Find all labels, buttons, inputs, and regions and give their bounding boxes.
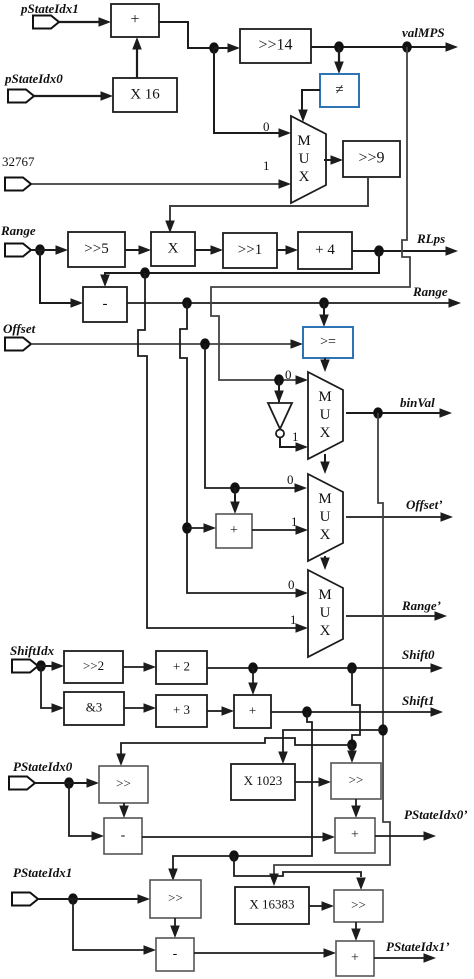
svg-text:Shift0: Shift0 — [402, 647, 435, 662]
mux U9 MUX4 Range — [308, 570, 343, 657]
svg-text:-: - — [173, 947, 178, 962]
junction PStateIdx0 node — [64, 777, 74, 788]
svg-text:U: U — [299, 151, 310, 167]
shifter D >> — [334, 890, 383, 922]
junction PStateIdx1 node — [68, 893, 78, 904]
junction Range out B — [319, 297, 329, 308]
wire sum to shifter14 — [214, 43, 240, 53]
wire MUX3 to MUX4 select — [320, 556, 330, 570]
svg-text:Range’: Range’ — [401, 598, 441, 613]
wire adder output — [159, 22, 214, 48]
wire adder4 to RLps output — [352, 246, 458, 256]
svg-text:>>1: >>1 — [238, 242, 262, 258]
input port pStateIdx1 — [33, 16, 59, 29]
wire binVal to X1023 — [283, 730, 383, 752]
wire Offset branch down — [205, 344, 295, 488]
junction on valMPS wire B — [402, 41, 412, 52]
adder U7 + — [216, 514, 252, 548]
wire PStateIdx0 to subtractor — [69, 783, 104, 841]
junction Shift0 B — [347, 662, 357, 673]
multiplier X 16 — [113, 78, 177, 112]
junction Range out A — [182, 297, 192, 308]
svg-text:>>: >> — [351, 897, 366, 912]
svg-text:RLps: RLps — [416, 231, 445, 246]
arrow into X1023 top — [278, 752, 288, 765]
svg-text:>>14: >>14 — [258, 37, 292, 54]
wire GE to MUX2 select — [320, 358, 330, 372]
shifter >>14 — [240, 29, 311, 63]
svg-text:U: U — [320, 407, 331, 423]
svg-text:>=: >= — [320, 335, 336, 350]
wire adder2 to MUX3 input 1 — [252, 525, 308, 535]
comparator U2 not-equal — [320, 74, 359, 107]
wire shifterC to subtractorC — [170, 918, 180, 938]
svg-text:>>9: >>9 — [358, 150, 384, 167]
wire X16 to adder — [132, 37, 142, 78]
wire Shift1 branch down — [173, 712, 312, 869]
wire X16383 to shifterD — [309, 901, 334, 911]
junction on RLps feedback — [140, 267, 150, 278]
wire NE to MUX1 select — [298, 90, 320, 122]
svg-text:+ 3: + 3 — [173, 702, 190, 717]
svg-text:0: 0 — [288, 577, 295, 592]
svg-text:32767: 32767 — [2, 154, 35, 169]
svg-text:0: 0 — [287, 472, 294, 487]
svg-text:0: 0 — [263, 119, 270, 134]
adder U10 + — [234, 695, 271, 728]
wire shifterB to adderA — [351, 799, 361, 818]
wire MUX3 to Offset out — [346, 512, 453, 522]
input port ShiftIdx — [12, 660, 38, 673]
mask &3 — [64, 692, 124, 725]
wire 32767 to MUX1 input 1 — [31, 179, 291, 189]
svg-text:1: 1 — [291, 514, 298, 529]
wire junction to comparator NE — [334, 47, 344, 74]
svg-text:PStateIdx1: PStateIdx1 — [13, 865, 72, 880]
svg-text:≠: ≠ — [335, 82, 343, 98]
svg-text:Offset’: Offset’ — [406, 497, 443, 512]
svg-text:&3: &3 — [86, 699, 103, 714]
comparator U4 greater-equal — [303, 327, 353, 358]
svg-text:PStateIdx0’: PStateIdx0’ — [404, 807, 468, 822]
wire Offset to comparator — [31, 343, 291, 345]
svg-text:X 1023: X 1023 — [244, 773, 283, 788]
svg-text:X: X — [320, 527, 331, 543]
junction Range branch at adder2 — [182, 522, 192, 533]
input port PStateIdx0 — [9, 777, 35, 790]
svg-text:>>: >> — [168, 890, 183, 905]
wire and3 to adder+3 — [124, 703, 156, 713]
wire PStateIdx0 to shifter — [35, 778, 99, 788]
mux U3 MUX1 — [291, 116, 326, 203]
wire subtractorA to adderA — [142, 832, 335, 842]
arrow into GE left — [291, 339, 304, 349]
junction Offset branch — [230, 482, 240, 493]
svg-text:X: X — [320, 425, 331, 441]
multiplier X 16383 — [235, 887, 309, 924]
mux U8 MUX3 Offset — [308, 474, 343, 561]
arrow into MUX4 input 0 — [296, 588, 309, 598]
svg-text:>>2: >>2 — [83, 658, 104, 673]
shifter A >> — [99, 766, 148, 803]
wire inverter to MUX2 input 1 — [280, 438, 308, 452]
svg-text:PStateIdx0: PStateIdx0 — [13, 759, 73, 774]
svg-text:pStateIdx1: pStateIdx1 — [20, 1, 79, 16]
wire shifter9 to multiplier X — [165, 177, 368, 233]
arrow into MUX3 input 0 — [295, 483, 308, 493]
svg-text:U: U — [320, 605, 331, 621]
svg-text:M: M — [318, 389, 331, 405]
svg-text:1: 1 — [263, 158, 270, 173]
wire Shift0 to adder7 top — [248, 668, 258, 695]
svg-text:M: M — [318, 491, 331, 507]
svg-text:X: X — [168, 240, 179, 256]
junction valMPS at inverter — [274, 374, 284, 385]
arrow Range output — [449, 298, 462, 308]
wire subtractorC to adderC — [194, 948, 336, 958]
junction binVal node — [373, 407, 383, 418]
svg-text:Offset: Offset — [3, 321, 36, 336]
wire Shift0 to left shifter — [121, 738, 352, 754]
adder C + — [336, 941, 374, 976]
svg-text:1: 1 — [290, 612, 297, 627]
shifter B >> — [331, 763, 381, 799]
svg-text:valMPS: valMPS — [402, 25, 445, 40]
subtractor R1 - — [83, 287, 127, 322]
wire shifter2 to adder+2 — [123, 662, 156, 672]
junction Offset node — [200, 338, 210, 349]
wire adder2 to Shift0 output — [207, 663, 443, 673]
svg-text:X: X — [299, 169, 310, 185]
wire shifter1 to adder4 — [277, 245, 298, 255]
wire Range to shifter5 — [31, 245, 68, 255]
svg-text:ShiftIdx: ShiftIdx — [10, 643, 55, 658]
wire RLps branch down — [138, 273, 296, 628]
wire shifter14 to valMPS output — [311, 42, 458, 52]
shifter >>2 — [64, 651, 123, 683]
svg-text:1: 1 — [292, 429, 299, 444]
svg-text:+ 4: + 4 — [315, 242, 335, 258]
wire PStateIdx1 to subtractor — [73, 899, 156, 955]
wire RLps down to subtractor — [100, 251, 379, 287]
svg-text:0: 0 — [285, 367, 292, 382]
svg-text:X 16383: X 16383 — [249, 896, 294, 911]
junction ShiftIdx node — [36, 660, 46, 671]
adder U1 + — [111, 4, 159, 37]
shifter >>9 — [343, 141, 400, 177]
svg-text:+: + — [249, 702, 256, 717]
svg-text:U: U — [320, 509, 331, 525]
input port 32767 — [5, 178, 31, 191]
svg-text:>>: >> — [116, 775, 131, 790]
adder A + — [335, 818, 375, 853]
svg-text:Range: Range — [0, 223, 36, 238]
svg-text:X: X — [320, 623, 331, 639]
wire adder3 to adder7 — [207, 706, 234, 716]
arrow into PState1 left shifter top — [168, 869, 178, 882]
wire Range branch to adder2 — [187, 523, 216, 533]
shifter >>1 — [223, 233, 277, 268]
wire shifterA to subtractorA — [119, 803, 129, 818]
wire sum to MUX1 input 0 — [214, 48, 291, 138]
wire binVal vertical — [274, 413, 390, 874]
wire Shift0 to right shifter top — [347, 745, 357, 763]
wire PStateIdx1 to shifter — [38, 894, 150, 904]
junction Shift1 at row2 — [229, 850, 239, 861]
junction sum node — [209, 42, 219, 53]
svg-text:-: - — [121, 828, 126, 843]
inverter U5 — [268, 403, 292, 438]
subtractor A - — [104, 818, 142, 854]
svg-text:+: + — [351, 951, 359, 966]
wire MUX2 to MUX3 select — [320, 454, 330, 474]
input port pStateIdx0 — [8, 90, 34, 103]
wire X to shifter1 — [195, 245, 223, 255]
wire X1023 to shifterB — [295, 777, 331, 787]
svg-text:Range: Range — [412, 284, 448, 299]
junction RLps node — [374, 245, 384, 256]
wire Range output — [127, 302, 449, 304]
adder + 2 — [156, 651, 207, 684]
svg-text:+: + — [130, 11, 139, 28]
wire Range to comparator GE top — [319, 303, 329, 327]
wire MUX4 to Range out — [346, 611, 447, 621]
svg-text:+: + — [230, 523, 238, 538]
svg-text:>>5: >>5 — [84, 241, 108, 257]
arrow into X16383 top — [269, 874, 279, 887]
svg-text:Shift1: Shift1 — [402, 693, 435, 708]
wire pStateIdx1 to adder — [59, 17, 111, 27]
arrow into MUX2 input 0 — [296, 375, 309, 385]
wire valMPS vertical to binVal mux — [211, 47, 410, 380]
wire Range to subtractor — [40, 250, 83, 308]
junction Shift0 A — [248, 662, 258, 673]
wire Shift0 branch down — [352, 668, 360, 745]
junction on valMPS wire A — [334, 41, 344, 52]
junction Shift0 at shifters — [347, 739, 357, 750]
wire to inverter — [274, 380, 284, 403]
shifter >>5 — [68, 232, 125, 267]
multiplier X 1023 — [231, 764, 295, 800]
svg-text:+: + — [351, 828, 359, 843]
junction Shift1 node — [302, 706, 312, 717]
wire shifter5 to X — [125, 245, 151, 255]
svg-text:-: - — [103, 296, 108, 312]
wire adderA to PStateIdx0 output — [375, 831, 436, 841]
wire pStateIdx0 to X16 — [34, 91, 113, 101]
mux U6 MUX2 binVal — [308, 372, 343, 459]
svg-text:M: M — [318, 587, 331, 603]
svg-text:pStateIdx0: pStateIdx0 — [4, 71, 63, 86]
input port PStateIdx1 — [12, 893, 38, 906]
wire to adder2 top — [230, 488, 240, 514]
wire adderC to PStateIdx1 output — [374, 953, 436, 963]
wire MUX1 to shifter9 — [324, 155, 343, 165]
arrow into MUX4 input 1 — [296, 623, 309, 633]
svg-text:M: M — [297, 133, 310, 149]
input port Range — [5, 244, 31, 257]
multiplier X — [151, 232, 195, 266]
wire Range branch down — [180, 303, 296, 593]
wire Shift1 to right shifter row2 — [234, 856, 361, 877]
svg-text:binVal: binVal — [400, 395, 435, 410]
wire ShiftIdx to and3 — [41, 666, 64, 713]
wire shifterD to adderC — [351, 922, 361, 941]
wire ShiftIdx to shifter2 — [38, 661, 64, 671]
wire MUX2 to binVal output — [346, 408, 452, 418]
subtractor C - — [156, 938, 194, 971]
svg-text:>>: >> — [349, 772, 364, 787]
input port Offset — [5, 338, 31, 351]
shifter C >> — [150, 880, 201, 918]
junction Range node — [35, 244, 45, 255]
arrow into PState1 right shifter top — [356, 878, 366, 891]
svg-text:X 16: X 16 — [130, 86, 160, 102]
adder + 4 — [298, 232, 352, 269]
arrow into left shifter top — [116, 754, 126, 767]
adder + 3 — [156, 695, 207, 727]
junction binVal at 1023 branch — [378, 724, 388, 735]
svg-text:+ 2: + 2 — [173, 658, 190, 673]
svg-text:PStateIdx1’: PStateIdx1’ — [386, 939, 450, 954]
wire adder7 to Shift1 output — [271, 707, 443, 717]
